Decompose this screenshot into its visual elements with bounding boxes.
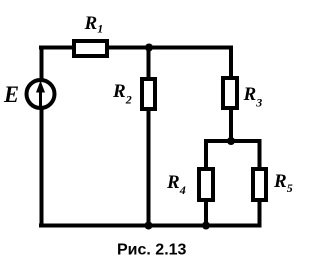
svg-text:Рис. 2.13: Рис. 2.13 (117, 242, 187, 259)
svg-text:E: E (3, 82, 19, 107)
